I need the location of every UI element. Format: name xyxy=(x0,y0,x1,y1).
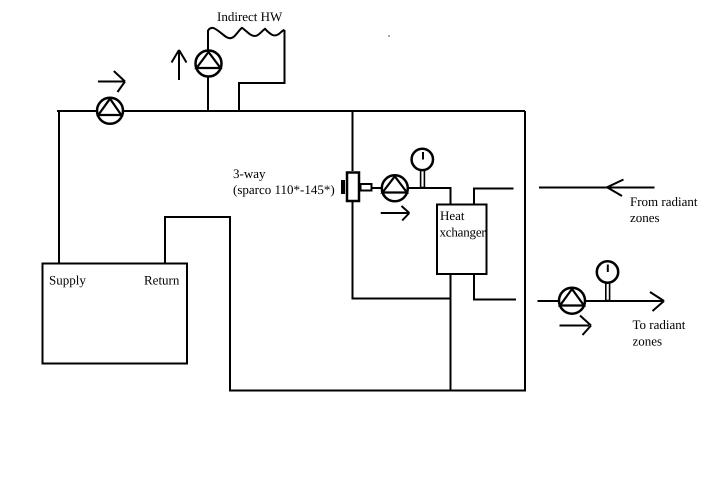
svg-text:Heat: Heat xyxy=(440,208,465,223)
svg-text:From radiant: From radiant xyxy=(630,194,698,209)
svg-text:zones: zones xyxy=(630,210,660,225)
svg-text:Supply: Supply xyxy=(49,273,86,288)
svg-text:Return: Return xyxy=(144,273,180,288)
svg-text:3-way: 3-way xyxy=(233,166,266,181)
svg-text:To radiant: To radiant xyxy=(633,317,686,332)
svg-text:(sparco 110*-145*): (sparco 110*-145*) xyxy=(233,182,335,197)
svg-text:zones: zones xyxy=(633,334,663,349)
svg-text:xchanger: xchanger xyxy=(440,225,487,240)
svg-text:Indirect HW: Indirect HW xyxy=(217,9,283,24)
